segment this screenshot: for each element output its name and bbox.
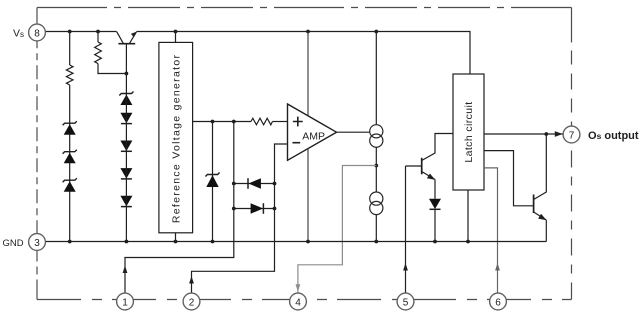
node rail-amp-power [306, 30, 310, 34]
node rail-current-source [374, 30, 378, 34]
dashed IC boundary left [36, 250, 38, 300]
zener diode D4 [119, 92, 133, 106]
svg-text:3: 3 [34, 238, 40, 249]
svg-text:AMP: AMP [302, 130, 325, 142]
pin 6 [490, 293, 507, 310]
pin 4 [290, 293, 307, 310]
node diode-row2 left [232, 207, 236, 211]
svg-text:Os output: Os output [588, 130, 639, 142]
node gnd-latch [466, 240, 470, 244]
latch circuit U2 [453, 74, 484, 190]
pin 1 [117, 293, 134, 310]
transistor Q3 [534, 134, 547, 242]
current source CS2 [370, 192, 383, 215]
wire pin2 column / minus input [192, 144, 288, 294]
svg-text:Vs: Vs [13, 28, 24, 40]
pin 3 [29, 234, 46, 251]
wire refgen bottom to ground rail [175, 233, 177, 242]
zener diode D1 [63, 121, 77, 135]
node gnd-refgen [174, 240, 178, 244]
node gnd-R1col [68, 240, 72, 244]
svg-text:8: 8 [34, 29, 40, 40]
node gnd-D12 [433, 240, 437, 244]
wire AMP ground [307, 148, 309, 241]
arrow pin5 up [403, 263, 408, 271]
dashed IC boundary top [37, 8, 572, 300]
resistor R2 [95, 32, 127, 74]
wire refgen top to rail [175, 32, 177, 43]
node gnd-D9col [211, 240, 215, 244]
wire refgen output to AMP plus input [193, 121, 251, 123]
node diode-row1 left [232, 182, 236, 186]
svg-text:4: 4 [295, 298, 301, 309]
wire AMP output [337, 131, 370, 133]
node diode-row1 right [273, 182, 277, 186]
node gnd-amp [306, 240, 310, 244]
svg-text:6: 6 [495, 298, 501, 309]
zener diode D3 [63, 178, 77, 192]
diode D11 pointing right [251, 203, 264, 214]
diode D10 pointing left [248, 178, 261, 189]
wire latch to Q3 base [484, 151, 534, 206]
node plus-line pin1 tap [232, 120, 236, 124]
wire pin5 column [405, 166, 407, 294]
dashed IC boundary bottom [37, 299, 572, 301]
resistor R3 [251, 118, 273, 125]
node gnd-D8col [125, 240, 129, 244]
svg-text:7: 7 [569, 131, 575, 142]
pin 5 [397, 293, 414, 310]
arrow pin6 up [495, 263, 500, 271]
svg-text:Reference Voltage generator: Reference Voltage generator [170, 54, 182, 223]
wire CS2 to ground rail [375, 215, 377, 242]
svg-text:5: 5 [403, 298, 409, 309]
node rail-R2 [96, 30, 100, 34]
wire AMP power [307, 32, 309, 116]
wire Vs rail left segment [45, 31, 117, 33]
wire latch output to pin7 [484, 133, 564, 135]
wire pin1 column [125, 122, 234, 294]
wire latch bottom to ground rail [467, 190, 469, 242]
diode D8 [120, 196, 132, 207]
wire pin4 path [298, 166, 376, 294]
dashed IC boundary right [571, 8, 573, 127]
reference voltage generator U1 [159, 42, 193, 232]
diode D7 [120, 168, 132, 179]
zener diode D2 [63, 150, 77, 164]
wire CS1 to CS2 [375, 147, 377, 192]
wire diode row1 [234, 183, 275, 185]
diode D6 [120, 141, 132, 152]
arrow pin4 down [296, 284, 301, 292]
zener diode D9 [205, 173, 219, 188]
wire ground rail [45, 241, 547, 243]
node rail-R1 [68, 30, 72, 34]
svg-text:GND: GND [3, 238, 24, 249]
node pin4 tap [374, 164, 378, 168]
wire rail to current source CS1 [375, 32, 377, 125]
arrow into pin7 [555, 131, 563, 137]
node Q1 base junction [125, 72, 129, 76]
arrow pin2 up [189, 276, 194, 284]
wire diode row2 [234, 208, 275, 210]
wire D8 to ground rail [125, 94, 127, 242]
arrow pin1 up [123, 266, 128, 274]
wire R3 to AMP [273, 121, 288, 123]
node Q3 collector junction [544, 132, 548, 136]
node diode-row2 right [273, 207, 277, 211]
wire Vs rail main segment to latch top [136, 32, 470, 75]
resistor R1 [66, 32, 73, 242]
node gnd-CS2 [374, 240, 378, 244]
svg-text:1: 1 [122, 298, 128, 309]
pin 2 [183, 293, 200, 310]
node rail-refgen [174, 30, 178, 34]
wire latch to pin6 [484, 168, 498, 294]
node plus-line zener tap [211, 120, 215, 124]
svg-text:2: 2 [189, 298, 195, 309]
diode D5 [120, 113, 132, 124]
diode D12 [429, 199, 441, 242]
wire zener column [212, 122, 214, 242]
transistor Q2 [406, 134, 453, 199]
transistor Q1 series pass [117, 32, 137, 94]
op-amp U3 [288, 104, 337, 160]
current source CS1 [370, 125, 383, 147]
svg-text:Latch circuit: Latch circuit [463, 101, 475, 162]
pin 8 [29, 24, 46, 41]
pin 7 [563, 126, 580, 143]
